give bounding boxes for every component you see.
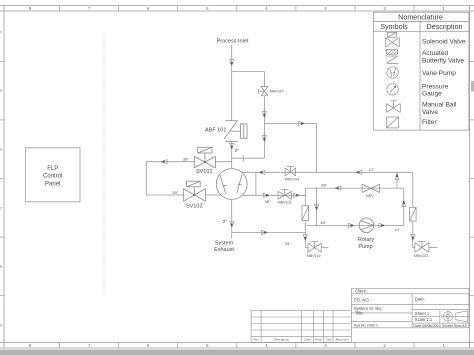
svg-text:SV102: SV102 <box>186 204 203 210</box>
svg-text:Date:: Date: <box>415 297 425 302</box>
filter F1 <box>302 206 309 221</box>
svg-text:Approved: Approved <box>335 337 349 341</box>
svg-text:Exhaust: Exhaust <box>214 247 234 253</box>
FLP control panel <box>25 148 80 202</box>
wire riser level B to level A <box>395 172 399 188</box>
svg-text:2": 2" <box>223 219 228 224</box>
TITLE BLOCK <box>351 288 469 328</box>
svg-text:Description: Description <box>427 22 463 31</box>
actuated butterfly valve ABF 101 <box>224 121 247 142</box>
svg-text:Filter: Filter <box>422 119 437 126</box>
svg-text:Sheet Size:A3: Sheet Size:A3 <box>443 324 466 328</box>
svg-text:1: 1 <box>442 343 445 348</box>
svg-text:Pressure: Pressure <box>422 83 449 90</box>
wire filter line F2 <box>411 172 415 247</box>
svg-text:PO. NO. :: PO. NO. : <box>354 298 372 303</box>
manual ball valve MBV104 <box>285 166 296 176</box>
wire riser level C to level B <box>402 188 406 225</box>
svg-text:6: 6 <box>147 343 150 348</box>
wire NRV line (level B) <box>305 186 404 190</box>
svg-text:3: 3 <box>324 343 327 348</box>
svg-text:E: E <box>0 88 3 93</box>
svg-text:MBV101: MBV101 <box>278 200 292 204</box>
svg-text:8: 8 <box>29 6 32 11</box>
svg-text:System: System <box>215 241 234 247</box>
svg-text:Symbols: Symbols <box>380 22 408 31</box>
wire SV101 left loop <box>146 160 194 195</box>
svg-text:Rev: Rev <box>253 337 259 341</box>
svg-text:4: 4 <box>265 343 268 348</box>
svg-text:2": 2" <box>235 148 240 153</box>
svg-text:Panel: Panel <box>45 181 60 187</box>
svg-text:4: 4 <box>265 6 268 11</box>
manual ball valve MBV102 <box>305 242 328 253</box>
svg-text:MBV104: MBV104 <box>285 178 299 182</box>
svg-text:5: 5 <box>206 6 209 11</box>
svg-text:8: 8 <box>29 343 32 348</box>
svg-text:MBV103: MBV103 <box>414 254 428 258</box>
wire ABF outlet <box>230 142 234 169</box>
svg-text:Actuated: Actuated <box>422 50 448 57</box>
wire level A to MBV101 drop <box>255 172 257 195</box>
svg-text:Date:09/05/2023: Date:09/05/2023 <box>413 324 440 328</box>
wire rotary pump line (level C) <box>305 223 404 227</box>
REVISION TABLE <box>251 311 351 343</box>
svg-text:Description: Description <box>274 337 290 341</box>
svg-text:3/8": 3/8" <box>265 200 272 204</box>
svg-text:3/8": 3/8" <box>320 221 327 225</box>
svg-text:3/8": 3/8" <box>183 157 190 161</box>
legend vane pump symbol <box>387 67 398 78</box>
legend manual ball valve symbol <box>387 101 401 113</box>
wire level B to level C link <box>315 188 319 226</box>
legend solenoid valve symbol <box>385 32 399 47</box>
svg-text:7: 7 <box>88 6 91 11</box>
svg-text:Client :: Client : <box>355 289 368 294</box>
svg-text:3/4": 3/4" <box>285 242 292 246</box>
svg-text:Valve: Valve <box>422 109 438 116</box>
NOMENCLATURE TABLE <box>373 12 469 130</box>
vane pump <box>216 169 247 200</box>
svg-text:Sheet 1: Sheet 1 <box>415 311 430 316</box>
svg-text:Vane Pump: Vane Pump <box>422 70 456 77</box>
svg-text:3: 3 <box>324 6 327 11</box>
svg-text:Ckd: Ckd <box>326 337 332 341</box>
wire MBV107 to bypass junction <box>262 96 266 124</box>
manual ball valve MBV101 <box>278 190 292 200</box>
svg-text:7: 7 <box>88 343 91 348</box>
svg-text:B: B <box>0 264 3 269</box>
wire system exhaust <box>230 200 234 239</box>
svg-text:Rotary: Rotary <box>358 237 374 243</box>
wire bypass junction to right feed <box>264 121 316 125</box>
svg-text:1: 1 <box>442 6 445 11</box>
svg-text:6: 6 <box>147 6 150 11</box>
svg-text:Date: Date <box>304 337 311 341</box>
rotary pump <box>359 218 374 233</box>
legend actuated butterfly valve symbol <box>385 50 398 64</box>
svg-text:D: D <box>0 147 3 152</box>
wire SV101 to main line <box>215 161 231 163</box>
svg-text:3/8": 3/8" <box>321 184 328 188</box>
svg-text:SV101: SV101 <box>196 169 213 175</box>
svg-text:MBV107: MBV107 <box>270 90 284 94</box>
solenoid valve SV102 <box>183 181 205 201</box>
wire pump outlet manifold (level A) <box>242 170 412 174</box>
svg-text:1/2": 1/2" <box>369 168 376 172</box>
wire filter line F1 <box>303 188 307 248</box>
check valve NRV <box>362 184 380 192</box>
legend filter symbol <box>387 117 399 128</box>
wire SV102 to pump <box>206 194 221 196</box>
legend pressure gauge symbol <box>387 84 398 95</box>
wire bypass feed down (upper segment) <box>316 124 318 173</box>
svg-text:Manual Ball: Manual Ball <box>422 102 457 109</box>
svg-text:NRV: NRV <box>366 194 374 198</box>
wire bypass down leg <box>262 124 266 159</box>
third angle projection icon <box>441 310 469 322</box>
svg-text:ABF 101: ABF 101 <box>205 128 226 134</box>
svg-text:Process Inlet: Process Inlet <box>217 39 249 45</box>
svg-text:Prep: Prep <box>315 337 322 341</box>
wire exhaust tee <box>232 230 306 234</box>
svg-text:C: C <box>0 205 3 210</box>
svg-text:A: A <box>0 323 3 328</box>
svg-text:Title:: Title: <box>355 310 364 315</box>
svg-text:Scale 1:1: Scale 1:1 <box>415 317 433 322</box>
wire branch to MBV107 <box>232 72 265 87</box>
svg-text:5: 5 <box>206 343 209 348</box>
svg-text:Nomenclature: Nomenclature <box>398 12 443 21</box>
svg-text:Control: Control <box>43 174 62 180</box>
svg-text:Butterfly Valve: Butterfly Valve <box>422 57 464 64</box>
wire bypass return <box>232 155 265 161</box>
svg-text:FLP: FLP <box>47 166 58 172</box>
manual ball valve MBV103 <box>413 241 438 252</box>
svg-text:3/8": 3/8" <box>172 191 179 195</box>
filter F2 <box>410 207 417 221</box>
solenoid valve SV101 <box>194 147 215 168</box>
svg-text:MBV102: MBV102 <box>307 254 321 258</box>
svg-text:Pump: Pump <box>358 244 372 250</box>
wire MBV101 line <box>243 193 306 197</box>
svg-text:2: 2 <box>383 6 386 11</box>
svg-text:2: 2 <box>383 343 386 348</box>
node System Exhaust <box>214 241 234 254</box>
node Process Inlet <box>217 39 249 45</box>
wire main inlet <box>230 45 234 121</box>
svg-text:Solenoid Valve: Solenoid Valve <box>422 39 466 46</box>
system boundary line <box>103 38 105 294</box>
manual ball valve MBV107 <box>259 87 268 96</box>
svg-text:1/2": 1/2" <box>394 228 401 232</box>
svg-text:Gauge: Gauge <box>422 91 442 98</box>
svg-text:Hyd No: FMD 1: Hyd No: FMD 1 <box>354 323 378 327</box>
